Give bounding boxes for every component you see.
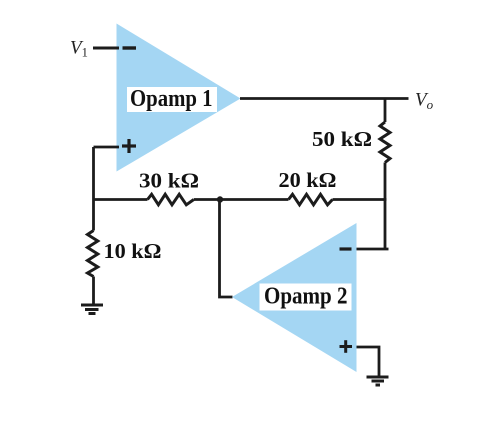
wire left vertical node A [92,147,95,231]
wire V1 to U1 minus input [93,47,119,50]
ground (right) [367,377,389,385]
op-amp U2 minus input pin [340,247,352,250]
wire R50k down to U2 minus lead [357,163,389,250]
op-amp U1 plus input pin [122,139,136,153]
wire node A horizontal to R30k [94,198,148,201]
resistor R 20k (horizontal) [289,194,333,205]
wire U1 output to Vo [240,97,409,100]
op-amp U2 Opamp 2 [232,223,357,372]
resistor R 10k (vertical) [88,231,98,277]
wire node B down to U2 output [220,200,233,298]
svg-text:30 kΩ: 30 kΩ [139,169,199,193]
svg-text:20 kΩ: 20 kΩ [279,168,337,192]
wire R30k to node B [194,198,221,201]
wire R20k to right vertical [333,198,387,201]
svg-text:Opamp 1: Opamp 1 [130,86,213,112]
op-amp U1 Opamp 1 [117,24,241,172]
resistor R 50k (vertical) [380,122,390,163]
svg-text:50 kΩ: 50 kΩ [312,127,372,151]
wire U1 plus input lead [94,146,120,149]
svg-text:10 kΩ: 10 kΩ [104,239,162,263]
op-amp U1 minus input pin [123,46,137,49]
wire 10k to ground [92,277,95,305]
op-amp U2 plus input pin [340,340,353,353]
ground (left) [81,305,103,314]
wire node B to R20k [220,198,289,201]
wire output junction down to R50k [384,99,387,123]
wire U2 plus input to ground [357,347,380,377]
node B junction dot [217,196,223,202]
svg-text:V1: V1 [70,38,88,60]
svg-text:Vo: Vo [415,90,434,113]
svg-text:Opamp 2: Opamp 2 [264,284,348,310]
resistor R 30k (horizontal) [148,194,194,205]
